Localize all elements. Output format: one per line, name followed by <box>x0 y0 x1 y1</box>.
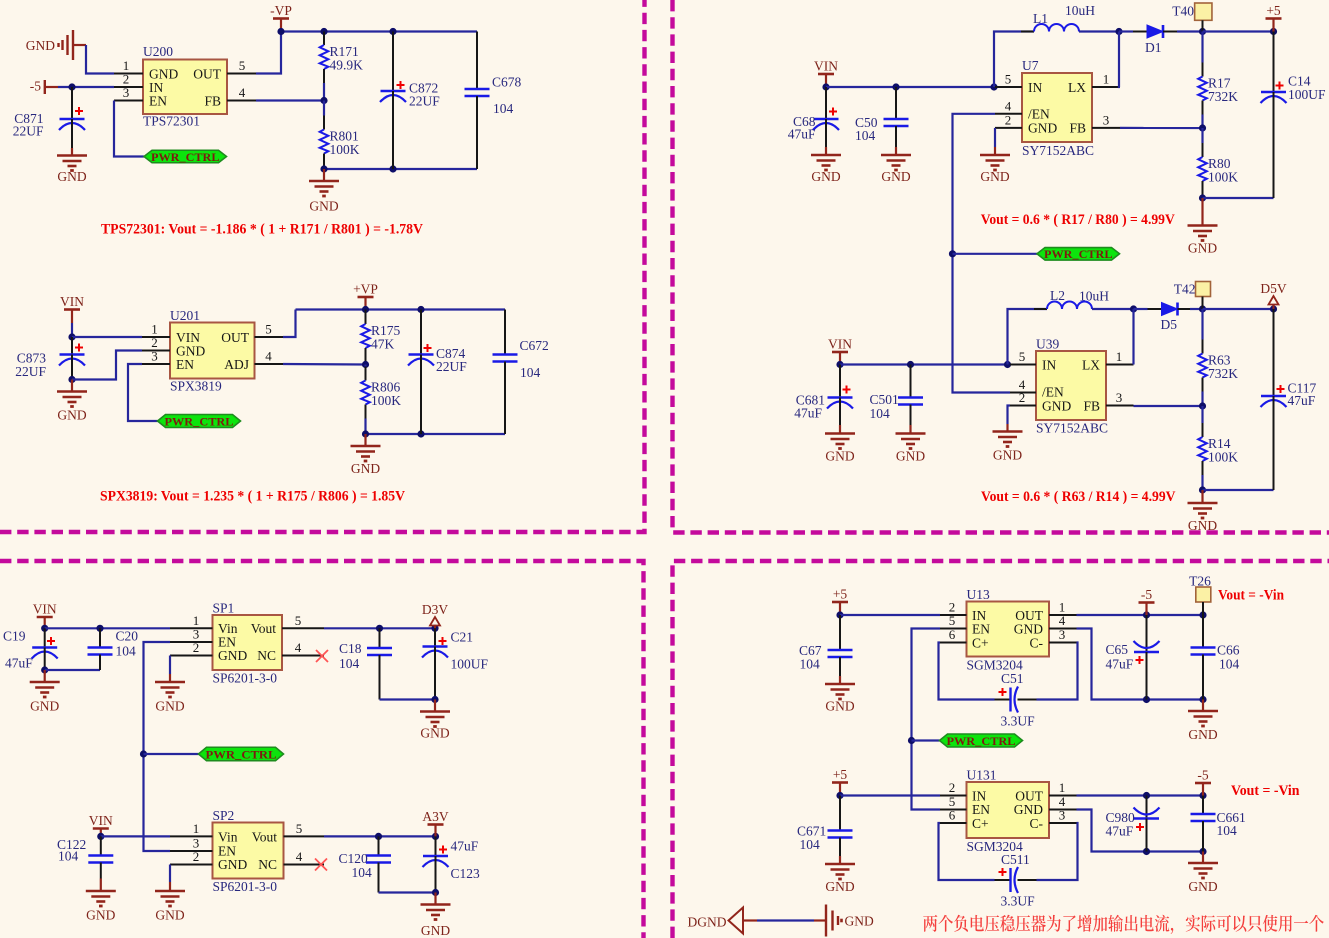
svg-text:104: 104 <box>855 128 876 143</box>
label C672 <box>520 338 549 353</box>
pin name GND U13 <box>1014 622 1043 637</box>
pin 2 GND <box>142 335 170 351</box>
junction L2 tap <box>1004 361 1011 368</box>
value 104 C120 <box>352 865 373 880</box>
capacitor C117 <box>1261 309 1287 490</box>
label L2 <box>1050 288 1065 303</box>
junction -VP rail <box>277 28 284 35</box>
value 104 C671 <box>800 837 821 852</box>
pin 2 GND U7 <box>995 112 1022 128</box>
formula TPS72301 <box>101 222 423 238</box>
junction D3V/C21 <box>431 625 438 632</box>
designator U200 <box>143 44 173 59</box>
wire <box>366 433 506 435</box>
junction gnd rail left <box>320 165 327 172</box>
label C501 <box>870 392 899 407</box>
ground C21 <box>420 700 450 741</box>
pin name EN <box>149 94 167 109</box>
label C51 <box>1001 671 1024 686</box>
svg-text:GND: GND <box>218 857 247 872</box>
junction FB U7 <box>1199 124 1206 131</box>
capacitor C65 <box>1134 615 1160 700</box>
value 3.3UF C51 <box>1001 714 1036 729</box>
svg-text:PWR_CTRL: PWR_CTRL <box>947 734 1016 748</box>
junction L2/D5 <box>1130 305 1137 312</box>
wire <box>1037 643 1078 700</box>
value 3.3UF C511 <box>1001 894 1036 909</box>
svg-text:+5: +5 <box>833 587 848 602</box>
svg-text:Vout = -Vin: Vout = -Vin <box>1231 783 1300 799</box>
part name SPX3819 <box>170 379 222 394</box>
svg-text:2: 2 <box>193 849 200 864</box>
junction C120 top <box>375 833 382 840</box>
svg-text:732K: 732K <box>1208 89 1238 104</box>
svg-text:22UF: 22UF <box>13 124 44 139</box>
pin 2 GND SP1 <box>170 640 213 655</box>
ground C873 <box>57 380 87 423</box>
pin 6 C+ U13 <box>940 627 967 643</box>
resistor R806 <box>361 365 401 435</box>
svg-text:3: 3 <box>123 85 130 100</box>
value 22UF C873 <box>15 364 46 379</box>
label C66 <box>1217 643 1240 658</box>
pin 3 C- U131 <box>1049 808 1077 824</box>
pin 2 IN U13 <box>940 600 967 616</box>
part name SP6201 SP2 <box>213 879 278 894</box>
svg-text:EN: EN <box>972 802 990 817</box>
svg-text:GND: GND <box>309 199 338 214</box>
inverter U131 <box>967 782 1050 838</box>
note Vout=-Vin U13 <box>1218 588 1285 604</box>
pin name IN U7 <box>1028 80 1042 95</box>
pin 1 GND <box>114 58 143 74</box>
junction A3V/C123 <box>432 833 439 840</box>
pin name ADJ <box>224 357 249 372</box>
part name TPS72301 <box>143 114 200 129</box>
value 22UF <box>13 124 44 139</box>
wire <box>71 323 73 337</box>
pin name LX U7 <box>1068 80 1086 95</box>
capacitor C67 <box>828 615 853 676</box>
svg-text:GND: GND <box>825 699 854 714</box>
svg-text:OUT: OUT <box>193 67 221 82</box>
pin name NC SP2 <box>258 857 277 872</box>
label C671 <box>797 824 826 839</box>
junction C872 bottom <box>389 165 396 172</box>
capacitor C120 <box>366 836 391 892</box>
capacitor C501 <box>898 365 923 426</box>
svg-text:4: 4 <box>295 640 302 655</box>
svg-text:GND: GND <box>57 169 86 184</box>
wire <box>1079 30 1119 32</box>
svg-text:C511: C511 <box>1001 852 1030 867</box>
pin 3 EN SP1 <box>170 627 213 642</box>
wire <box>953 253 1038 255</box>
label D1 <box>1145 40 1162 55</box>
svg-text:-5: -5 <box>30 79 41 94</box>
svg-text:GND: GND <box>980 169 1009 184</box>
svg-text:47K: 47K <box>371 337 395 352</box>
wire <box>1092 308 1134 310</box>
wire <box>72 351 142 380</box>
pin 2 IN U131 <box>940 780 967 796</box>
pin name IN U131 <box>972 789 986 804</box>
svg-text:Vout = 0.6 * ( R17 / R80 ) = 4: Vout = 0.6 * ( R17 / R80 ) = 4.99V <box>981 212 1175 228</box>
wire <box>144 753 199 755</box>
value 104 C67 <box>800 657 821 672</box>
value 47uF C117 <box>1288 393 1316 408</box>
power VIN SP2 <box>89 813 113 836</box>
capacitor C19 <box>32 628 58 670</box>
pin name OUT U13 <box>1015 608 1043 623</box>
wire <box>1077 629 1204 700</box>
pin name C- U13 <box>1030 636 1044 651</box>
wire <box>1203 308 1274 310</box>
svg-text:104: 104 <box>116 644 137 659</box>
svg-text:U7: U7 <box>1022 58 1039 73</box>
ground C501 <box>896 425 926 464</box>
wire <box>72 336 142 338</box>
svg-text:C20: C20 <box>116 629 139 644</box>
capacitor C21 <box>422 628 448 699</box>
junction C501 <box>907 361 914 368</box>
svg-text:GND: GND <box>155 908 184 923</box>
formula SPX3819 <box>100 489 405 505</box>
svg-text:C19: C19 <box>3 629 26 644</box>
svg-text:U201: U201 <box>170 308 200 323</box>
pin 2 IN <box>114 72 143 88</box>
label T40 <box>1172 4 1194 19</box>
pin name Vin SP1 <box>218 621 238 636</box>
junction VIN/C19 <box>41 625 48 632</box>
svg-text:6: 6 <box>949 627 956 642</box>
label C67 <box>799 643 822 658</box>
pin 3 EN SP2 <box>170 836 213 851</box>
svg-text:FB: FB <box>1083 399 1100 414</box>
pin name EN SP1 <box>218 635 236 650</box>
pin name OUT U201 <box>221 330 249 345</box>
svg-text:GND: GND <box>1014 622 1043 637</box>
svg-text:IN: IN <box>1028 80 1042 95</box>
svg-text:10uH: 10uH <box>1079 289 1109 304</box>
wire <box>939 823 995 880</box>
wire <box>169 656 171 675</box>
svg-text:GND: GND <box>421 923 450 938</box>
junction C65 top <box>1143 611 1150 618</box>
svg-text:47uF: 47uF <box>1106 824 1134 839</box>
pin 4 FB <box>227 85 256 101</box>
capacitor C68 <box>813 87 839 147</box>
junction PWR_CTRL U7 <box>949 250 956 257</box>
label T26 <box>1189 574 1211 589</box>
svg-text:C678: C678 <box>492 75 522 90</box>
designator U131 <box>967 768 997 783</box>
svg-text:GND: GND <box>1042 399 1071 414</box>
pin 1 OUT U131 <box>1049 780 1077 796</box>
svg-text:GND: GND <box>896 449 925 464</box>
svg-text:SY7152ABC: SY7152ABC <box>1022 143 1094 158</box>
junction R80 bottom <box>1199 194 1206 201</box>
svg-text:NC: NC <box>257 648 276 663</box>
pin name OUT <box>193 67 221 82</box>
svg-text:PWR_CTRL: PWR_CTRL <box>151 150 220 164</box>
power +5 U7 <box>1266 3 1282 32</box>
junction +5/C67 <box>836 611 843 618</box>
capacitor C672 <box>493 310 518 435</box>
svg-text:C65: C65 <box>1106 642 1129 657</box>
pin name GND U201 <box>176 344 205 359</box>
svg-text:47uF: 47uF <box>794 406 822 421</box>
svg-text:104: 104 <box>493 101 514 116</box>
svg-text:5: 5 <box>295 613 302 628</box>
wire <box>1177 30 1203 32</box>
junction R171 top <box>320 28 327 35</box>
capacitor C18 <box>367 628 392 699</box>
wire <box>101 835 170 837</box>
svg-text:GND: GND <box>881 169 910 184</box>
ground C67 <box>825 676 855 714</box>
label C19 <box>3 629 26 644</box>
pin name C- U131 <box>1030 816 1044 831</box>
no-connect X SP1 pin4 <box>316 650 328 662</box>
svg-text:1: 1 <box>193 821 200 836</box>
pin name IN U13 <box>972 608 986 623</box>
capacitor C873 <box>59 337 85 380</box>
svg-text:D5: D5 <box>1161 317 1178 332</box>
ground U7 pin2 <box>980 147 1010 184</box>
junction VIN SP2 <box>97 833 104 840</box>
wire <box>1134 405 1203 407</box>
ground C123 <box>421 893 451 938</box>
svg-text:C+: C+ <box>972 636 989 651</box>
wire <box>128 364 158 421</box>
part name SY7152ABC <box>1022 143 1094 158</box>
svg-text:104: 104 <box>1217 823 1238 838</box>
junction C20 top <box>96 625 103 632</box>
svg-text:C66: C66 <box>1217 643 1240 658</box>
svg-text:TPS72301: TPS72301 <box>143 114 200 129</box>
wire <box>1203 489 1274 491</box>
pin 4 GND U131 <box>1049 794 1077 810</box>
value 104 C501 <box>870 406 891 421</box>
pin 3 FB U7 <box>1092 112 1120 128</box>
junction L1/D1 <box>1115 28 1122 35</box>
label C661 <box>1217 810 1246 825</box>
svg-text:T42: T42 <box>1174 282 1196 297</box>
svg-text:5: 5 <box>296 821 303 836</box>
pin 5 EN U13 <box>940 613 967 629</box>
svg-text:4: 4 <box>296 849 303 864</box>
pin 3 EN <box>142 349 170 365</box>
wire <box>840 794 940 796</box>
svg-text:T26: T26 <box>1189 574 1211 589</box>
wire <box>1008 406 1011 425</box>
wire <box>912 629 941 810</box>
capacitor C51 <box>995 687 1037 713</box>
svg-text:22UF: 22UF <box>436 359 467 374</box>
pin name /EN U39 <box>1042 385 1064 400</box>
wire <box>840 363 1010 365</box>
svg-text:GND: GND <box>1188 518 1217 533</box>
label C678 <box>492 75 522 90</box>
junction C66 top <box>1199 611 1206 618</box>
regulator SP1 <box>213 615 283 670</box>
svg-text:-VP: -VP <box>270 3 292 18</box>
label C21 <box>451 630 474 645</box>
pin name GND U131 <box>1014 802 1043 817</box>
label C511 <box>1001 852 1030 867</box>
label C68 <box>793 114 816 129</box>
ground C66 <box>1188 700 1218 743</box>
svg-text:D1: D1 <box>1145 40 1162 55</box>
pin 5 IN U39 <box>1010 349 1036 365</box>
svg-text:VIN: VIN <box>60 294 84 309</box>
value 104 C50 <box>855 128 876 143</box>
designator U39 <box>1036 337 1059 352</box>
label L1 <box>1033 11 1048 26</box>
svg-text:Vout: Vout <box>252 830 278 845</box>
converter U7 <box>1022 73 1092 142</box>
pin name IN <box>149 80 163 95</box>
svg-text:GND: GND <box>218 648 247 663</box>
svg-text:4: 4 <box>1059 613 1066 628</box>
wire <box>840 614 940 616</box>
svg-text:3: 3 <box>1116 390 1123 405</box>
svg-text:104: 104 <box>339 656 360 671</box>
pin 1 LX U7 <box>1092 72 1120 88</box>
junction gnd rail U201 <box>362 430 369 437</box>
wire <box>1077 810 1204 852</box>
power VIN U201 <box>60 294 84 323</box>
value 104 C661 <box>1217 823 1238 838</box>
wire <box>281 30 477 32</box>
svg-text:Vout: Vout <box>251 621 277 636</box>
capacitor C50 <box>884 87 909 147</box>
svg-text:A3V: A3V <box>422 809 448 824</box>
power +5 U131 <box>832 767 848 796</box>
label C18 <box>339 641 362 656</box>
label C871 <box>14 111 43 126</box>
svg-text:10uH: 10uH <box>1065 3 1095 18</box>
svg-text:2: 2 <box>949 780 956 795</box>
wire <box>912 739 940 741</box>
pin 4 NC SP1 <box>282 640 324 655</box>
resistor R801 <box>320 101 360 170</box>
value 47uF C123 <box>451 839 479 854</box>
svg-text:47uF: 47uF <box>1288 393 1316 408</box>
svg-text:47uF: 47uF <box>5 656 33 671</box>
port PWR_CTRL SP <box>199 747 284 761</box>
svg-text:C-: C- <box>1030 816 1044 831</box>
wire <box>45 669 100 671</box>
svg-text:EN: EN <box>176 357 194 372</box>
pin 5 IN U7 <box>995 72 1022 88</box>
pin name GND <box>149 67 178 82</box>
svg-text:+5: +5 <box>1266 3 1281 18</box>
regulator SP2 <box>213 823 284 879</box>
svg-text:PWR_CTRL: PWR_CTRL <box>206 747 277 761</box>
ground C661 <box>1188 852 1218 895</box>
svg-text:49.9K: 49.9K <box>330 58 364 73</box>
ground R801 <box>309 169 339 214</box>
pin name IN U39 <box>1042 358 1056 373</box>
wire <box>1134 308 1148 310</box>
pin name Vin SP2 <box>218 830 238 845</box>
inductor L1 <box>1021 24 1092 31</box>
svg-text:47uF: 47uF <box>788 127 816 142</box>
junction C874 bottom <box>417 430 424 437</box>
value 22UF C874 <box>436 359 467 374</box>
pin name NC SP1 <box>257 648 276 663</box>
svg-text:47uF: 47uF <box>1106 657 1134 672</box>
svg-text:C+: C+ <box>972 816 989 831</box>
label C873 <box>17 351 47 366</box>
ground (sideways) at U200 pin1 <box>59 30 74 60</box>
pin name EN U13 <box>972 622 990 637</box>
wire <box>379 891 436 893</box>
test point T40 <box>1195 3 1212 20</box>
wire <box>1119 30 1133 32</box>
power -5 U13 <box>1139 587 1155 603</box>
ground SP2 pin2 <box>155 882 185 923</box>
capacitor C678 <box>465 32 490 170</box>
wire <box>757 919 814 921</box>
pin 5 EN U131 <box>940 794 967 810</box>
wire <box>826 86 995 88</box>
note Vout=-Vin U131 <box>1231 783 1300 799</box>
svg-text:VIN: VIN <box>828 337 852 352</box>
wire <box>45 627 170 629</box>
power VIN SP1 <box>33 602 57 629</box>
test point T42 <box>1196 282 1211 297</box>
junction C874 top <box>417 306 424 313</box>
pin name FB U39 <box>1083 399 1100 414</box>
wire <box>1203 197 1274 199</box>
svg-text:+5: +5 <box>833 767 848 782</box>
wire <box>1037 823 1078 880</box>
designator U7 <box>1022 58 1039 73</box>
junction +5/C671 <box>836 792 843 799</box>
junction L1 tap <box>990 83 997 90</box>
svg-text:TPS72301: Vout = -1.186 * ( 1: TPS72301: Vout = -1.186 * ( 1 + R171 / R… <box>101 222 423 238</box>
wire <box>58 86 114 88</box>
wire <box>1077 614 1204 616</box>
label C14 <box>1288 74 1311 89</box>
junction T40 <box>1199 28 1206 35</box>
svg-text:SY7152ABC: SY7152ABC <box>1036 421 1108 436</box>
pin name FB U7 <box>1069 121 1086 136</box>
junction C661 bottom <box>1199 848 1206 855</box>
regulator U201 <box>170 323 255 379</box>
svg-text:3: 3 <box>1103 112 1110 127</box>
junction C661 top <box>1199 792 1206 799</box>
border top-right block <box>673 0 1329 533</box>
pin 5 Vout SP1 <box>282 613 324 628</box>
ground C871 <box>57 148 87 184</box>
junction T42 <box>1199 305 1206 312</box>
svg-text:5: 5 <box>949 613 956 628</box>
wire <box>994 32 1034 88</box>
net -5 <box>30 79 58 95</box>
junction C18 top <box>376 625 383 632</box>
svg-text:C-: C- <box>1030 636 1044 651</box>
wire <box>1119 32 1120 88</box>
pin 1 Vin SP2 <box>170 821 213 836</box>
pin 4 ADJ <box>255 349 284 365</box>
label D5 <box>1161 317 1178 332</box>
svg-text:GND: GND <box>86 908 115 923</box>
svg-text:GND: GND <box>155 699 184 714</box>
